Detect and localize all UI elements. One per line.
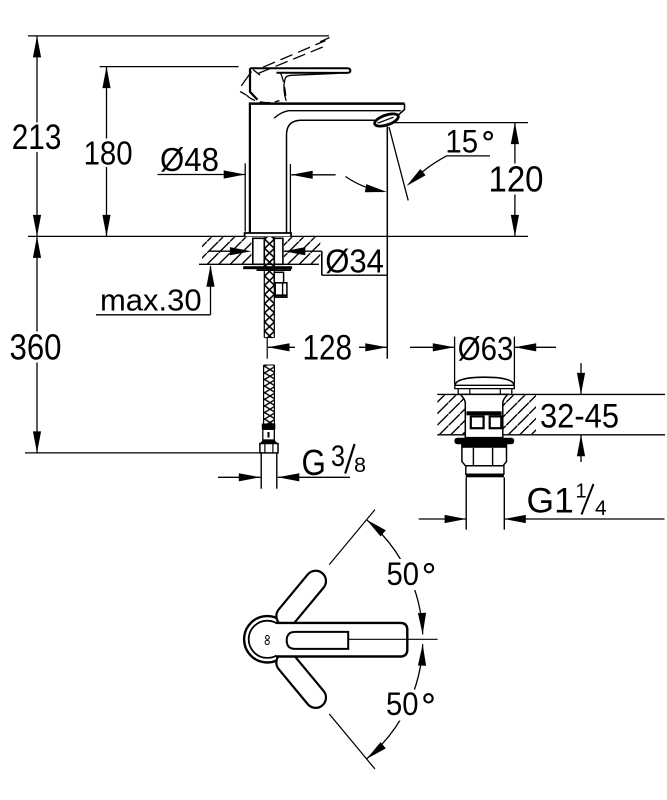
dim Ø48 arrow right xyxy=(291,174,335,176)
top view knob outer circle xyxy=(244,616,290,662)
faucet body outline xyxy=(249,104,251,233)
deck bottom line xyxy=(199,263,319,265)
dim 360 line xyxy=(36,236,38,331)
drain cap dome xyxy=(455,377,515,385)
shank left block xyxy=(253,238,264,264)
Ø48 extension line right xyxy=(289,164,291,234)
raised handle dashed tip xyxy=(320,38,330,42)
Ø63 extension lines xyxy=(454,337,456,384)
drain flange xyxy=(454,438,514,444)
drain body band xyxy=(467,411,502,415)
svg-text:32-45: 32-45 xyxy=(540,398,619,436)
threaded rod xyxy=(264,237,274,338)
svg-text:8: 8 xyxy=(354,454,366,477)
extension line 180 ref xyxy=(100,66,239,68)
handle stick rotated down 50 xyxy=(272,648,330,712)
dim G3/8 arrows xyxy=(218,476,260,478)
handle lever blade top xyxy=(250,68,350,73)
sink slab hatch xyxy=(437,395,536,434)
aerator xyxy=(373,111,400,128)
deck top line xyxy=(28,235,528,237)
15 deg leader arrow xyxy=(410,156,447,184)
hose fitting lower xyxy=(275,283,287,297)
svg-text:Ø34: Ø34 xyxy=(325,242,384,279)
shank right block xyxy=(274,238,283,264)
angle arc to vertical line xyxy=(346,177,384,192)
raised handle dashed left outline xyxy=(247,72,252,79)
svg-text:128: 128 xyxy=(303,328,353,367)
svg-text:Ø48: Ø48 xyxy=(160,141,219,178)
svg-text:1: 1 xyxy=(576,481,587,503)
sink slab bottom line xyxy=(437,434,665,436)
spout tip chamfer xyxy=(399,104,405,115)
dim 32-45 xyxy=(580,363,582,394)
handle stick rotated up 50 xyxy=(272,567,330,631)
dim Ø63 xyxy=(410,346,454,348)
outlet vertical reference line xyxy=(386,127,388,359)
svg-text:360: 360 xyxy=(10,327,62,368)
svg-text:213: 213 xyxy=(12,118,62,157)
drain collar xyxy=(466,466,504,474)
svg-text:G1: G1 xyxy=(527,482,574,521)
spout underside and inner corner xyxy=(287,120,376,233)
hose fitting upper xyxy=(274,272,283,283)
faucet base plate xyxy=(245,233,291,236)
svg-text:Ø63: Ø63 xyxy=(458,330,514,367)
deck hatch left xyxy=(202,237,251,264)
top view knob inner circle xyxy=(249,621,286,658)
drain nut xyxy=(462,444,507,466)
raised handle dashed right curve xyxy=(281,74,286,97)
drain cap lower rim xyxy=(458,389,512,395)
svg-text:15: 15 xyxy=(445,124,478,160)
spout second top line xyxy=(274,111,401,119)
dim 120 line xyxy=(514,123,516,164)
svg-text:max.30: max.30 xyxy=(100,284,202,318)
grohe logo marks xyxy=(266,636,270,640)
hose connector nut xyxy=(260,444,278,453)
drain slots xyxy=(471,416,484,428)
bottom extension line (360 ref) xyxy=(25,452,262,454)
deck hatch right xyxy=(284,237,321,264)
raised handle dashed inner top dash xyxy=(253,70,260,76)
Ø48 extension line left xyxy=(244,163,246,231)
dim 213 line xyxy=(36,36,38,123)
hose connector flare xyxy=(260,440,278,444)
dim 128 xyxy=(268,346,295,348)
drain cap rim xyxy=(455,385,515,388)
raised handle dashed lower line xyxy=(258,45,328,73)
drain tailpipe xyxy=(465,477,467,529)
braided hose xyxy=(264,365,275,424)
50 deg label upper xyxy=(382,559,439,590)
svg-text:50: 50 xyxy=(387,556,420,592)
50 deg label lower xyxy=(381,690,439,721)
top view handle fill xyxy=(276,623,407,657)
dim 180 line xyxy=(106,67,108,139)
svg-text:3: 3 xyxy=(331,440,345,473)
top view handle outline xyxy=(276,623,407,657)
120 upper extension line xyxy=(391,122,528,124)
handle neck and blade front face line xyxy=(284,73,338,101)
Ø34 label box xyxy=(323,252,386,274)
raised handle dashed upper line xyxy=(263,41,326,68)
mounting flange 2 xyxy=(257,269,292,271)
ray upper 50 xyxy=(329,510,375,565)
svg-text:50: 50 xyxy=(386,686,419,722)
svg-text:180: 180 xyxy=(84,136,133,173)
hose ferrule xyxy=(262,424,276,430)
raised handle dashed bottom arc xyxy=(247,95,280,102)
extension line top (213 ref) xyxy=(28,35,329,37)
dim G1 1/4 xyxy=(419,518,466,520)
angle arc upper xyxy=(367,520,423,635)
dim Ø34 arrows xyxy=(209,250,247,252)
top view centerline xyxy=(348,638,437,640)
angle arc lower xyxy=(367,644,423,759)
svg-text:G: G xyxy=(302,442,326,483)
svg-text:4: 4 xyxy=(595,497,607,520)
connection tube xyxy=(260,453,262,489)
centerline below rod xyxy=(266,338,268,359)
Ø34 text xyxy=(324,244,385,253)
sink slab top line xyxy=(437,393,665,395)
svg-text:120: 120 xyxy=(489,159,544,200)
water stream 15 deg line xyxy=(389,127,408,200)
hose connector white band xyxy=(263,429,275,440)
top view handle inner recess xyxy=(287,632,349,649)
mounting flange 1 xyxy=(243,266,292,269)
drain body xyxy=(460,394,508,437)
handle base left edge xyxy=(250,68,258,100)
dim Ø48 leader/arrow left xyxy=(158,174,246,176)
ray lower 50 xyxy=(329,714,375,769)
